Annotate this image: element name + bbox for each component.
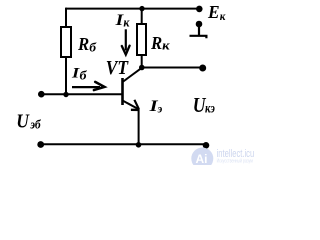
resistor Rк — [137, 24, 146, 55]
node collector junction — [139, 65, 145, 71]
watermark logo circle — [191, 148, 213, 170]
svg-text:R: R — [77, 34, 89, 54]
svg-text:б: б — [80, 68, 88, 82]
node top rail to Rк — [139, 6, 144, 11]
node emitter junction — [136, 142, 142, 148]
terminal Eк plus — [196, 6, 203, 13]
wire Rб top lead — [65, 8, 67, 27]
arrow Iк — [125, 29, 127, 50]
svg-text:э: э — [157, 101, 163, 115]
svg-text:R: R — [150, 33, 162, 53]
svg-text:б: б — [89, 39, 96, 54]
terminal bottom left — [37, 141, 44, 148]
wire base input — [41, 93, 122, 95]
svg-text:U: U — [16, 110, 30, 132]
svg-text:к: к — [220, 9, 226, 23]
terminal bottom right — [203, 142, 210, 149]
base bar — [121, 78, 124, 105]
terminal input left — [38, 91, 45, 98]
emitter lead — [123, 101, 138, 109]
svg-text:к: к — [162, 38, 170, 53]
arrow Iб — [72, 86, 100, 88]
svg-text:эб: эб — [29, 118, 41, 132]
terminal output right — [199, 65, 206, 72]
svg-text:к: к — [123, 15, 129, 30]
wire collector output — [142, 67, 202, 69]
wire Rб bottom lead — [65, 58, 67, 95]
svg-text:VT: VT — [106, 58, 129, 79]
node base junction — [63, 92, 68, 97]
wire Rк top lead — [141, 9, 143, 24]
wire top rail — [66, 8, 199, 10]
svg-text:Ai: Ai — [196, 152, 208, 165]
wire Eк minus lead — [190, 24, 208, 38]
svg-text:кэ: кэ — [205, 101, 215, 116]
svg-text:Искусственный разум: Искусственный разум — [217, 158, 254, 165]
terminal Eк minus — [196, 21, 203, 28]
resistor Rб — [61, 27, 71, 57]
wire bottom rail — [41, 143, 206, 145]
wire Rк bottom lead — [141, 56, 143, 68]
collector lead — [123, 68, 142, 82]
emitter arrowhead — [134, 100, 139, 109]
svg-text:E: E — [207, 2, 220, 22]
wire emitter down — [138, 109, 140, 145]
transistor VT — [123, 68, 142, 110]
